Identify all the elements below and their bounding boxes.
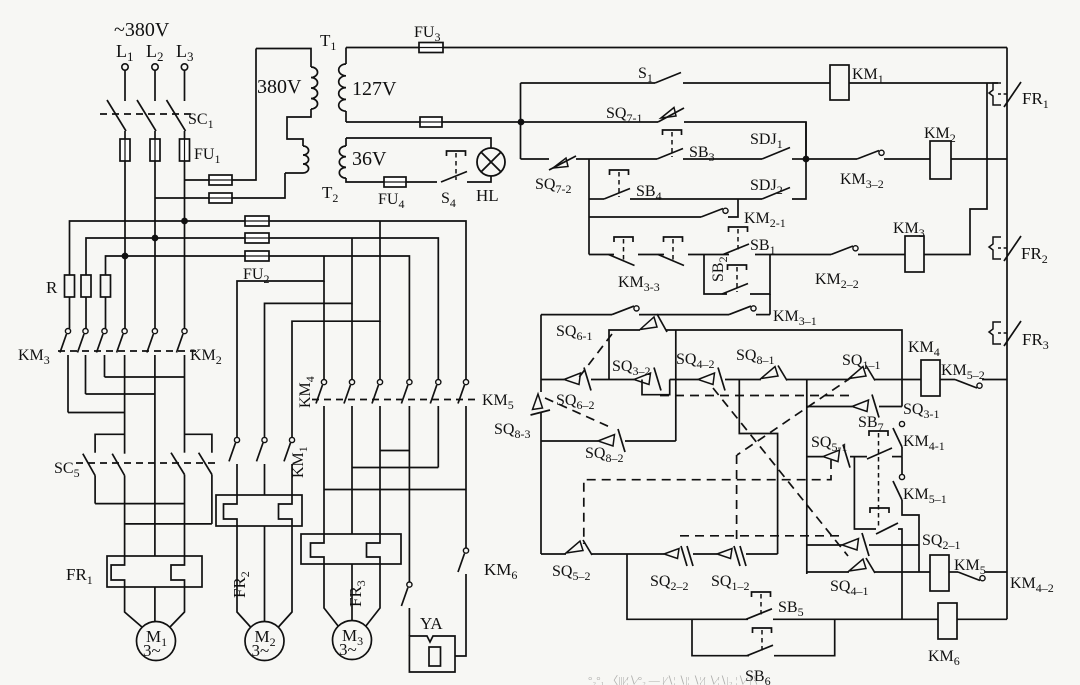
node L2 rail junction bbox=[152, 235, 159, 242]
wire control left spine upper bbox=[520, 83, 522, 159]
wire drop x739 jog bbox=[739, 380, 777, 555]
wire fuse to T1 primary bbox=[232, 49, 256, 181]
contactor KM1 main contact 1 bbox=[229, 437, 240, 461]
wire phase L2 vertical bbox=[154, 161, 156, 329]
wire SQ7-2 to SB3 bbox=[576, 158, 657, 160]
svg-text:°₂°₁ 〈|||⁄¦∖⁄°₂ — |⁄∖¦ ∖|¦ ∖¦: °₂°₁ 〈|||⁄¦∖⁄°₂ — |⁄∖¦ ∖|¦ ∖¦⁄| ∖⁄¦∖|₂ ¦… bbox=[588, 674, 758, 685]
relay coil KM1 bbox=[830, 65, 849, 100]
wire SQ3-1 row bbox=[807, 406, 852, 408]
wire KM3 coil return jog bbox=[924, 83, 987, 255]
thermal relay FR3 heater box bbox=[301, 534, 401, 564]
wire 127V bottom bbox=[346, 121, 420, 123]
wire SQ3-2 tail step bbox=[642, 380, 670, 395]
switch SC5 blade 4 bbox=[199, 453, 212, 475]
contactor KM1 main contact 2 bbox=[257, 437, 268, 461]
svg-text:HL: HL bbox=[476, 186, 499, 205]
wire SC5 pole4 down bbox=[211, 475, 213, 524]
contactor KM5 main contact 2 bbox=[430, 380, 441, 404]
wire FR1 to M1 right bbox=[170, 587, 185, 628]
wire SQ6-1 branch bbox=[609, 330, 640, 380]
wire below KM4 contact 2 bbox=[351, 406, 353, 468]
wire SB4 row bbox=[589, 198, 604, 200]
wire SC5 lower link 2 bbox=[125, 523, 212, 525]
terminal L1 bbox=[122, 64, 128, 70]
limit switch SQ2-1 bbox=[842, 533, 869, 556]
wire KM3-2 to KM2 coil bbox=[884, 158, 930, 160]
wire SB5 to KM6 coil bbox=[773, 618, 938, 620]
limit switch SQ6-1 bbox=[640, 314, 667, 332]
wire SQ row seg mid bbox=[693, 553, 717, 555]
thermal relay FR3 heater element 1 bbox=[311, 534, 325, 564]
switch S4 bbox=[441, 151, 467, 182]
switch SC5 blade 3 bbox=[171, 453, 185, 475]
linkage SQ6-1 to SQ6-2 bbox=[577, 334, 612, 380]
contact KM5-2 bbox=[955, 380, 982, 389]
contactor KM2 main contact 3 bbox=[177, 329, 188, 353]
wire KM5-2 to rail bbox=[982, 379, 1007, 381]
wire SQ8-2 row seg1 bbox=[541, 440, 598, 442]
wire below KM3 contact 2 bbox=[85, 355, 87, 394]
wire SC5 pole2 down bbox=[124, 476, 126, 557]
wire main SQ row seg5 bbox=[787, 379, 849, 381]
fuse transformer feed 1 bbox=[209, 175, 232, 185]
wire main SQ row seg2 bbox=[591, 379, 634, 381]
wire SB5 branch down bbox=[627, 554, 748, 619]
wire main SQ row seg1 bbox=[541, 379, 564, 381]
thermal relay FR1 heater element 1 bbox=[111, 556, 125, 587]
motor M3 bbox=[333, 621, 372, 660]
contactor KM6 main contact 2 bbox=[458, 548, 469, 572]
contactor KM5 main contact 3 bbox=[458, 380, 469, 404]
wire below KM2 contact 2 bbox=[154, 355, 156, 556]
wire SQ8-2 row seg2 bbox=[625, 440, 676, 442]
contact KM4-2 bbox=[958, 572, 985, 581]
wire 127V bottom to node bbox=[442, 121, 521, 123]
wire FR2 to M2 left bbox=[237, 526, 251, 628]
linkage SQ1-1 to SQ1-2 vertical bbox=[736, 455, 738, 543]
lamp HL bbox=[477, 148, 505, 176]
wire FR1 to M1 mid bbox=[154, 587, 156, 622]
wire KM6 coil to rail bbox=[957, 618, 1007, 620]
contactor KM2 main contact 2 bbox=[147, 329, 158, 353]
wire T1 secondary top bbox=[345, 48, 347, 65]
linkage SQ8-3 to SQ8-2 bbox=[545, 398, 612, 428]
wire main SQ row seg6 bbox=[875, 379, 921, 381]
linkage SQ1-1 to SQ1-2 diagonal bbox=[737, 377, 852, 455]
wire L2 to FU1 bbox=[154, 131, 156, 139]
node control junction bbox=[803, 156, 810, 163]
limit switch SQ2-2 bbox=[664, 546, 693, 566]
wire FR3 to M3 right bbox=[366, 564, 381, 627]
contactor KM4 main contact 1 bbox=[316, 380, 327, 404]
wire T2 sec top stub bbox=[345, 138, 347, 146]
thermal relay FR1 heater element 2 bbox=[171, 556, 185, 587]
relay coil KM2 bbox=[930, 141, 951, 179]
pushbutton SB5 bbox=[746, 592, 772, 619]
wire merge KM4c2 KM5c2 bbox=[352, 467, 438, 469]
pushbutton SB7 upper blade bbox=[867, 448, 892, 459]
wire KM3-1 row segment1 bbox=[541, 314, 612, 316]
contact KM3-3 pole 2 bbox=[658, 237, 684, 266]
relay coil KM3 bbox=[905, 236, 924, 272]
wire SQ5-2 row seg2 bbox=[592, 553, 664, 555]
wire KM4 coil to KM5-2 bbox=[940, 379, 955, 381]
limit switch SQ5-1 bbox=[823, 445, 850, 468]
wire crossover KM3c2 to KM2c2 bbox=[86, 393, 155, 395]
thermal relay FR2 heater box bbox=[216, 495, 302, 526]
thermal relay FR2 heater element 1 bbox=[224, 495, 238, 526]
wire KM1 coil to FR1 contact bbox=[849, 82, 998, 84]
pushbutton SB6 bbox=[747, 628, 773, 656]
wire SQ5-1 row seg1 bbox=[807, 456, 823, 458]
contact KM3-2 bbox=[857, 150, 884, 159]
wire 127V top rail bbox=[346, 47, 419, 49]
wire rail1 jog to KM1 column 3 bbox=[292, 221, 380, 437]
transformer T1 secondary winding 127V bbox=[339, 64, 346, 111]
switch S1 blade bbox=[655, 73, 681, 84]
wire KM3-1 mid bbox=[639, 314, 729, 316]
wire FU2 rail 1 bbox=[70, 221, 246, 275]
fuse FU1 pole 3 bbox=[180, 139, 190, 161]
wire drop x807 bbox=[806, 380, 808, 575]
wire below KM1 contact 1 bbox=[236, 464, 238, 495]
node L1 rail junction bbox=[122, 253, 129, 260]
switch SC5 gang link bbox=[76, 462, 216, 464]
wire L1 to FU1 bbox=[124, 131, 126, 139]
thermal contact FR2 bbox=[989, 236, 1021, 261]
wire KM6 contact1 to YA bbox=[408, 608, 410, 636]
linkage SQ2-2 to SQ2-1 bbox=[680, 535, 842, 537]
wire jog2 down to KM4 contact bbox=[351, 303, 353, 379]
fuse FU3 bbox=[419, 43, 443, 53]
contact KM3-1 pole b bbox=[729, 306, 756, 315]
wire R2 to KM3 contact bbox=[85, 297, 87, 329]
wire phase L1 vertical bbox=[124, 161, 126, 329]
wire FU4 to S4 bbox=[406, 181, 437, 183]
wire FR1 to M1 left bbox=[125, 587, 143, 628]
fuse FU2 pole 3 bbox=[245, 251, 269, 261]
wire S1 to KM1 coil bbox=[683, 82, 830, 84]
wire merge KM4c1 KM5c3 bbox=[324, 489, 466, 491]
wire merge1 down to YA contact bbox=[408, 451, 410, 583]
wire SQ5-2 row seg1 bbox=[541, 553, 566, 555]
wire KM5-1 down jog bbox=[901, 457, 903, 475]
wire KM2 coil to rail bbox=[951, 158, 1007, 160]
wire SC5 lower link 1 bbox=[95, 503, 184, 505]
wire SQ5-1 row seg3 bbox=[892, 456, 902, 458]
wire SB1 to KM2-2 bbox=[755, 254, 831, 256]
wire SB3 to SDJ1 bbox=[683, 158, 762, 160]
pushbutton SB3 bbox=[657, 130, 683, 159]
resistor R pole 3 bbox=[101, 275, 111, 297]
fuse FU2 pole 2 bbox=[245, 233, 269, 243]
fuse 127V return bbox=[420, 117, 442, 127]
wire KM2 row segment 1 bbox=[521, 158, 550, 160]
pushbutton SB4 bbox=[604, 170, 630, 199]
wire KM3-3 to SB1 bbox=[688, 254, 729, 256]
thermal relay FR3 heater element 2 bbox=[367, 534, 381, 564]
node L3 rail junction bbox=[181, 218, 188, 225]
wire T1 primary bottom to T2 primary bbox=[287, 109, 311, 146]
wire below KM2 contact 1 bbox=[124, 355, 126, 454]
wire SB6 return bbox=[774, 619, 835, 655]
wire FU2 rail 3 bbox=[106, 256, 246, 275]
wire matrix left edge upper bbox=[540, 315, 542, 392]
contact KM4-1 bbox=[893, 421, 905, 447]
wire merge2 down to FR3 bbox=[351, 468, 353, 535]
switch SC5 blade 1 bbox=[83, 454, 95, 476]
contact KM3-1 pole a bbox=[612, 306, 639, 315]
wire KM5 coil to KM4-2 bbox=[949, 571, 958, 573]
limit switch SQ8-3 bbox=[531, 394, 551, 415]
wire FU2 rail 2 bbox=[86, 238, 245, 275]
resistor R pole 1 bbox=[65, 275, 75, 297]
wire rail3 jog to KM1 column 1 bbox=[237, 256, 324, 437]
wire SB2 branch right bbox=[750, 255, 770, 295]
relay coil KM4 bbox=[921, 360, 940, 396]
wire KM4-1 to SQ5-1 row bbox=[901, 447, 903, 457]
limit switch SQ4-2 bbox=[698, 368, 725, 391]
resistor R pole 2 bbox=[81, 275, 91, 297]
pushbutton SB2 bbox=[722, 265, 748, 294]
wire L2 to transformer fuse bbox=[155, 197, 209, 199]
wire merge3 down to FR3 bbox=[323, 490, 325, 535]
fuse FU2 pole 1 bbox=[245, 216, 269, 226]
wire SB7 branch right bbox=[898, 529, 902, 619]
wire T2 primary bottom bbox=[285, 172, 303, 174]
svg-text:3~: 3~ bbox=[339, 640, 357, 659]
wire KM3-3 mid bbox=[638, 254, 664, 256]
wire L3 to FU1 bbox=[184, 131, 186, 139]
wire FU2 rail 2 right bbox=[269, 238, 438, 380]
wire SQ row right bbox=[746, 553, 778, 555]
motor M2 bbox=[245, 622, 284, 661]
wire jog3 down to KM4 contact bbox=[379, 321, 381, 379]
wire L3 drop bbox=[184, 70, 186, 101]
switch SC1 blade 3 bbox=[167, 100, 186, 131]
thermal contact FR3 bbox=[989, 321, 1021, 346]
contactor KM6 main contact 1 bbox=[401, 582, 412, 606]
limit switch SQ1-1 bbox=[849, 366, 875, 381]
contactor KM3 main contact 1 bbox=[60, 329, 71, 353]
contact KM5-1 bbox=[893, 474, 905, 500]
wire T1 primary top bbox=[256, 49, 311, 68]
KM4 KM5 gang link bbox=[312, 399, 476, 401]
terminal L3 bbox=[181, 64, 187, 70]
wire below KM1 contact 3 bbox=[291, 464, 293, 495]
wire KM4-2 to rail bbox=[985, 571, 1007, 573]
thermal relay FR2 heater element 2 bbox=[279, 495, 293, 526]
wire T1 secondary bottom bbox=[345, 111, 347, 122]
relay coil KM6 bbox=[938, 603, 957, 639]
wire KM6 contact2 to YA bbox=[455, 574, 466, 656]
wire below KM2 contact 3 bbox=[184, 355, 186, 453]
wire KM5 row seg2 bbox=[875, 571, 930, 573]
wire SQ7-1 to corner bbox=[684, 122, 806, 159]
pushbutton SB7 lower plunger bbox=[870, 508, 889, 513]
transformer T1 primary winding 380V bbox=[311, 67, 318, 109]
wire SB4 to SDJ2 bbox=[630, 198, 762, 200]
limit switch SQ8-1 bbox=[761, 366, 787, 381]
limit switch SQ7-1 bbox=[658, 108, 684, 123]
wire crossover KM3c3 to KM2c3 bbox=[105, 376, 185, 378]
wire SC5 pole1 down bbox=[94, 476, 96, 504]
limit switch SQ1-2 bbox=[717, 546, 746, 566]
wire FU2 rail 1 right bbox=[269, 221, 466, 380]
svg-text:~380V: ~380V bbox=[114, 19, 170, 41]
wire KM5-1 to KM5 row bbox=[902, 500, 919, 572]
wire below KM3 contact 1 bbox=[67, 355, 69, 413]
switch SC1 blade 2 bbox=[137, 100, 156, 131]
switch SDJ2 blade bbox=[762, 188, 790, 200]
wire below KM5 contact 2 bbox=[437, 406, 439, 468]
wire KM2-1 row bbox=[589, 216, 701, 218]
svg-text:R: R bbox=[46, 278, 58, 297]
switch SC1 blade 1 bbox=[107, 100, 126, 131]
wire R3 to KM3 contact bbox=[105, 297, 107, 329]
wire fuse to T2 primary bbox=[232, 173, 285, 198]
wire top rail to right bbox=[443, 47, 1007, 49]
wire jog1 down to KM4 contact bbox=[323, 281, 325, 380]
contactor KM3 main contact 2 bbox=[78, 329, 89, 353]
wire merge1 down to FR3 bbox=[379, 451, 381, 535]
wire FU2 rail 3 right bbox=[269, 256, 409, 380]
svg-text:127V: 127V bbox=[352, 78, 397, 100]
contact KM2-1 bbox=[701, 208, 728, 217]
contactor KM3 main contact 3 bbox=[97, 329, 108, 353]
thermal relay FR1 heater box bbox=[107, 556, 202, 587]
wire KM3-3 row segment 1 bbox=[589, 254, 614, 256]
solenoid YA bbox=[409, 636, 455, 672]
wire rail2 jog to KM1 column 2 bbox=[265, 238, 353, 437]
svg-text:3~: 3~ bbox=[252, 641, 270, 660]
wire S4 to HL bbox=[467, 176, 491, 182]
wire KM5 row seg1 bbox=[807, 571, 849, 573]
wire control left spine lower bbox=[588, 159, 590, 255]
wire right rail bbox=[1006, 48, 1008, 620]
wire SQ2-1 row seg1 bbox=[807, 544, 842, 546]
fuse FU1 pole 1 bbox=[120, 139, 130, 161]
wire 127V to SQ7-1 bbox=[521, 121, 658, 123]
wire R1 to KM3 contact bbox=[69, 297, 71, 329]
node 127V junction bbox=[518, 119, 525, 126]
transformer T2 secondary winding 36V bbox=[339, 146, 346, 178]
wire SB7 branch left bbox=[854, 457, 876, 529]
limit switch SQ3-1 bbox=[852, 395, 879, 418]
wire drop x676 bbox=[675, 330, 677, 441]
contactor KM5 main contact 1 bbox=[401, 380, 412, 404]
svg-text:380V: 380V bbox=[257, 76, 302, 98]
wire SQ2-1 row seg2 bbox=[869, 544, 919, 546]
fuse FU1 pole 2 bbox=[150, 139, 160, 161]
svg-text:3~: 3~ bbox=[143, 641, 161, 660]
contactor KM1 main contact 3 bbox=[284, 437, 295, 461]
limit switch SQ5-2 bbox=[566, 540, 592, 555]
wire FR2 to M2 right bbox=[278, 526, 292, 628]
KM3 KM2 gang link bbox=[58, 350, 196, 352]
wire S1 row left bbox=[521, 82, 656, 84]
fuse FU4 bbox=[384, 177, 406, 187]
relay coil KM5 bbox=[930, 555, 949, 591]
wire FR3 to M3 left bbox=[324, 564, 339, 627]
wire T2 sec bottom stub bbox=[346, 178, 384, 182]
pushbutton SB1 bbox=[723, 227, 749, 255]
wire SQ3-1 row right bbox=[879, 406, 902, 408]
wire FR2 to M2 mid bbox=[264, 526, 266, 622]
wire KM3-1 right bbox=[756, 314, 770, 316]
linkage SQ4-2 to SQ4-1 bbox=[713, 388, 848, 556]
wire SC5 pole3 down bbox=[184, 475, 186, 557]
wire main SQ row seg3 bbox=[670, 379, 698, 381]
transformer T2 primary winding bbox=[303, 146, 309, 173]
pushbutton SB7 lower blade bbox=[876, 523, 898, 534]
limit switch SQ7-2 bbox=[549, 156, 576, 170]
wire 36V top bbox=[346, 138, 491, 148]
thermal contact FR1 bbox=[989, 82, 1021, 107]
wire below KM5 contact 1 bbox=[408, 406, 410, 451]
wire SB6 branch down bbox=[692, 619, 749, 655]
limit switch SQ8-2 bbox=[598, 429, 625, 452]
linkage SQ3-2 to SQ3-1 bbox=[660, 395, 852, 397]
wire matrix left edge lower bbox=[540, 412, 542, 554]
contactor KM2 main contact 1 bbox=[117, 329, 128, 353]
wire merge KM4c3 KM5c1 bbox=[380, 450, 409, 452]
motor M1 bbox=[137, 622, 176, 661]
wire below KM5 contact 3 bbox=[465, 406, 467, 490]
switch SDJ1 blade bbox=[762, 148, 790, 160]
pushbutton SB7 plunger bbox=[869, 431, 888, 528]
wire below KM4 contact 1 bbox=[323, 406, 325, 490]
limit switch SQ4-1 bbox=[849, 558, 875, 573]
wire SDJ1 to node bbox=[792, 158, 806, 160]
switch SC5 bracket right bbox=[185, 434, 212, 452]
wire L1 drop bbox=[124, 70, 126, 101]
wire KM2-2 to KM3 coil bbox=[858, 254, 905, 256]
switch SC1 gang link bbox=[100, 113, 196, 115]
wire main SQ row seg4 bbox=[725, 379, 761, 381]
wire L2 drop bbox=[154, 70, 156, 101]
linkage SQ5-1 to SQ5-2 bbox=[584, 460, 831, 544]
wire node to KM3-2 bbox=[806, 158, 857, 160]
wire SB2 to KM3-1 row bbox=[769, 294, 771, 315]
svg-text:YA: YA bbox=[420, 614, 443, 633]
wire merge3 down to KM6 contact bbox=[465, 490, 467, 549]
limit switch SQ6-2 bbox=[564, 368, 591, 391]
contact KM3-3 pole 1 bbox=[609, 237, 635, 266]
wire below KM1 contact 2 bbox=[264, 464, 266, 495]
limit switch SQ3-2 bbox=[634, 368, 661, 391]
wire crossover KM3c1 to KM2c1 bbox=[68, 412, 125, 414]
fuse transformer feed 2 bbox=[209, 193, 232, 203]
wire phase L3 vertical bbox=[184, 161, 186, 329]
terminal L2 bbox=[152, 64, 158, 70]
contact KM2-2 bbox=[831, 246, 858, 255]
wire SQ6-1 branch right bbox=[666, 330, 902, 407]
wire SQ5-1 row seg2 bbox=[850, 456, 867, 458]
wire L3 to transformer fuse bbox=[185, 179, 210, 181]
contactor KM4 main contact 3 bbox=[372, 380, 383, 404]
contactor KM4 main contact 2 bbox=[344, 380, 355, 404]
wire SDJ2 to node branch bbox=[792, 122, 806, 199]
wire KM2-1 up bbox=[728, 199, 738, 217]
switch SC5 bracket left bbox=[95, 434, 125, 452]
switch SC5 blade 2 bbox=[112, 454, 124, 476]
wire SB2 branch left bbox=[704, 255, 727, 295]
wire below KM4 contact 3 bbox=[379, 406, 381, 451]
svg-text:36V: 36V bbox=[352, 148, 387, 170]
wire FR3 to M3 mid bbox=[351, 564, 353, 620]
wire below KM3 contact 3 bbox=[104, 355, 106, 377]
